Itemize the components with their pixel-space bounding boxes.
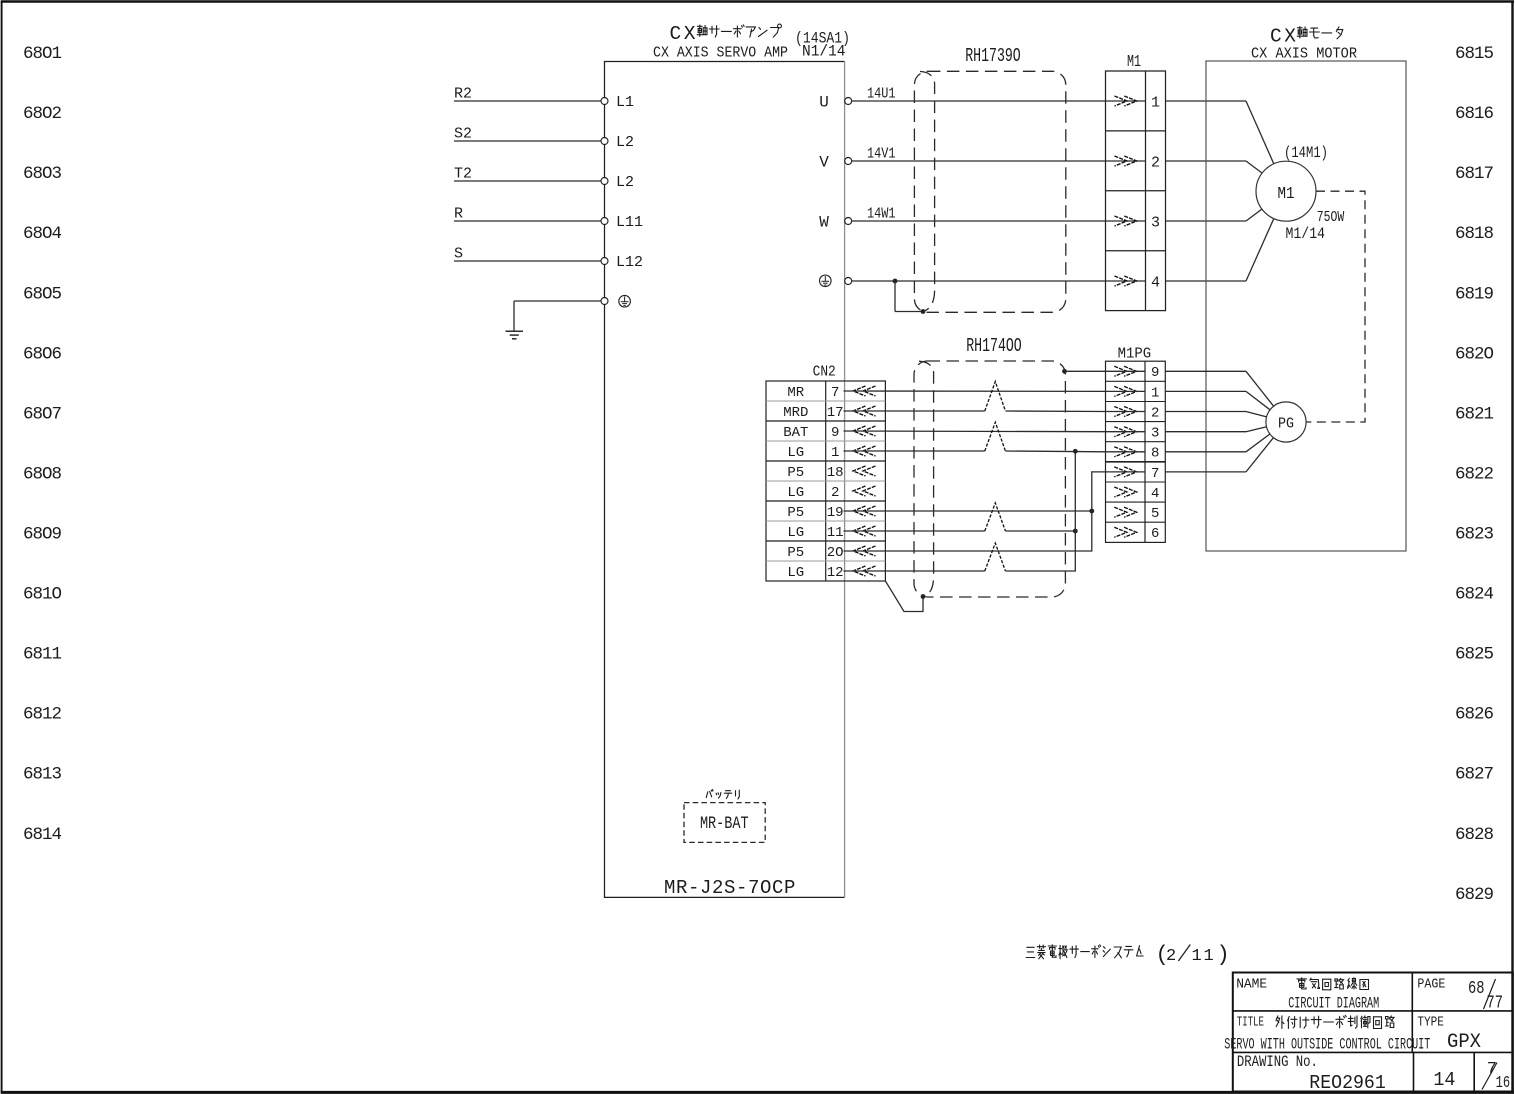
svg-text:6814: 6814 (23, 825, 62, 845)
svg-text:3: 3 (1151, 214, 1160, 231)
svg-text:2O: 2O (827, 545, 844, 561)
svg-text:LG: LG (787, 485, 804, 501)
svg-text:6812: 6812 (23, 705, 62, 725)
svg-text:14: 14 (1433, 1069, 1455, 1091)
svg-text:REO2961: REO2961 (1309, 1072, 1386, 1094)
svg-text:68O9: 68O9 (23, 525, 62, 545)
svg-text:1: 1 (1151, 385, 1159, 401)
svg-text:PAGE: PAGE (1417, 977, 1445, 993)
svg-text:): ) (1217, 943, 1230, 968)
svg-text:N1/14: N1/14 (802, 43, 846, 61)
svg-text:MR: MR (787, 385, 804, 401)
svg-text:68O6: 68O6 (23, 344, 62, 364)
svg-text:682O: 682O (1455, 344, 1494, 364)
svg-text:2: 2 (1151, 154, 1160, 171)
svg-text:68O2: 68O2 (23, 104, 62, 124)
svg-text:W: W (819, 213, 829, 231)
svg-text:19: 19 (827, 505, 844, 521)
svg-text:8: 8 (1151, 446, 1159, 462)
svg-text:9: 9 (1151, 365, 1159, 381)
svg-text:17: 17 (827, 405, 844, 421)
svg-text:M1/14: M1/14 (1286, 225, 1326, 243)
svg-text:TYPE: TYPE (1417, 1015, 1444, 1031)
svg-text:LG: LG (787, 565, 804, 581)
svg-text:14V1: 14V1 (867, 147, 896, 163)
svg-text:MRD: MRD (783, 405, 808, 421)
svg-text:14W1: 14W1 (867, 207, 896, 223)
svg-text:18: 18 (827, 465, 844, 481)
svg-text:TITLE: TITLE (1237, 1015, 1264, 1031)
svg-text:11: 11 (827, 525, 844, 541)
svg-text:7: 7 (831, 385, 839, 401)
svg-text:M1PG: M1PG (1118, 346, 1152, 362)
svg-text:6822: 6822 (1455, 464, 1494, 484)
svg-text:LG: LG (787, 525, 804, 541)
svg-text:6829: 6829 (1455, 885, 1494, 905)
svg-text:M1: M1 (1127, 52, 1141, 71)
svg-text:6823: 6823 (1455, 525, 1494, 545)
svg-text:(14M1): (14M1) (1284, 144, 1328, 162)
svg-text:75OW: 75OW (1317, 209, 1345, 226)
svg-text:6819: 6819 (1455, 284, 1494, 304)
svg-text:7: 7 (1151, 466, 1159, 482)
svg-text:L11: L11 (616, 214, 643, 231)
svg-text:681O: 681O (23, 585, 62, 605)
svg-text:6815: 6815 (1455, 44, 1494, 64)
svg-text:L2: L2 (616, 174, 634, 191)
svg-text:T2: T2 (454, 166, 472, 183)
svg-text:PG: PG (1278, 415, 1294, 432)
svg-text:68O1: 68O1 (23, 44, 62, 64)
svg-text:6821: 6821 (1455, 404, 1494, 424)
svg-text:NAME: NAME (1236, 977, 1267, 993)
svg-text:RH1739O: RH1739O (965, 45, 1021, 67)
svg-text:68O5: 68O5 (23, 284, 62, 304)
svg-text:6817: 6817 (1455, 164, 1494, 184)
svg-text:3: 3 (1151, 426, 1159, 442)
svg-text:V: V (819, 153, 829, 171)
svg-text:CN2: CN2 (813, 364, 836, 380)
svg-text:6825: 6825 (1455, 645, 1494, 665)
svg-text:6818: 6818 (1455, 224, 1494, 244)
svg-text:2: 2 (831, 485, 839, 501)
svg-text:2: 2 (1166, 947, 1176, 966)
svg-text:L12: L12 (616, 254, 643, 271)
svg-text:16: 16 (1496, 1074, 1511, 1093)
svg-text:6824: 6824 (1455, 585, 1494, 605)
svg-text:P5: P5 (787, 545, 804, 561)
svg-text:6811: 6811 (23, 645, 62, 665)
svg-text:12: 12 (827, 565, 844, 581)
svg-text:M1: M1 (1278, 184, 1295, 203)
svg-text:6813: 6813 (23, 765, 62, 785)
svg-text:6816: 6816 (1455, 104, 1494, 124)
svg-text:U: U (819, 93, 829, 111)
svg-text:9: 9 (831, 425, 839, 441)
svg-text:MR-J2S-7OCP: MR-J2S-7OCP (664, 877, 796, 899)
svg-text:4: 4 (1151, 274, 1160, 291)
svg-text:CIRCUIT DIAGRAM: CIRCUIT DIAGRAM (1288, 995, 1379, 1013)
svg-text:SERVO WITH OUTSIDE CONTROL CIR: SERVO WITH OUTSIDE CONTROL CIRCUIT (1224, 1036, 1430, 1054)
svg-text:77: 77 (1487, 994, 1504, 1014)
svg-text:6827: 6827 (1455, 765, 1494, 785)
svg-text:2: 2 (1151, 405, 1159, 421)
svg-text:CX AXIS SERVO AMP: CX AXIS SERVO AMP (653, 46, 788, 62)
svg-text:68: 68 (1468, 979, 1485, 999)
svg-text:DRAWING No.: DRAWING No. (1237, 1053, 1318, 1071)
svg-text:P5: P5 (787, 505, 804, 521)
svg-text:RH174OO: RH174OO (966, 335, 1022, 357)
svg-text:1: 1 (1151, 94, 1160, 111)
svg-text:CX: CX (1270, 26, 1298, 48)
svg-text:LG: LG (787, 445, 804, 461)
svg-text:1: 1 (831, 445, 839, 461)
svg-text:68O3: 68O3 (23, 164, 62, 184)
svg-text:4: 4 (1151, 486, 1159, 502)
svg-text:S2: S2 (454, 126, 472, 143)
svg-text:68O4: 68O4 (23, 224, 62, 244)
svg-text:6828: 6828 (1455, 825, 1494, 845)
svg-text:CX: CX (670, 23, 698, 45)
svg-text:68O7: 68O7 (23, 404, 62, 424)
svg-text:BAT: BAT (783, 425, 808, 441)
svg-text:6: 6 (1151, 526, 1159, 542)
svg-text:P5: P5 (787, 465, 804, 481)
svg-text:L1: L1 (616, 94, 634, 111)
svg-text:1: 1 (1204, 947, 1214, 966)
svg-text:CX AXIS MOTOR: CX AXIS MOTOR (1251, 47, 1357, 63)
svg-text:1: 1 (1192, 947, 1202, 966)
svg-text:5: 5 (1151, 506, 1159, 522)
svg-text:R: R (454, 206, 463, 223)
svg-text:14U1: 14U1 (867, 87, 896, 103)
svg-text:MR-BAT: MR-BAT (700, 814, 749, 834)
svg-text:R2: R2 (454, 86, 472, 103)
svg-text:6826: 6826 (1455, 705, 1494, 725)
svg-text:GPX: GPX (1447, 1031, 1481, 1054)
svg-text:S: S (454, 246, 463, 263)
svg-text:68O8: 68O8 (23, 464, 62, 484)
svg-text:L2: L2 (616, 134, 634, 151)
